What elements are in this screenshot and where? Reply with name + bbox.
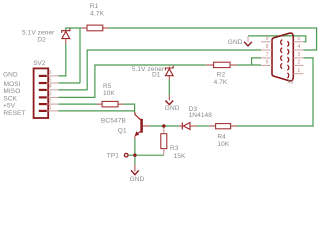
- svg-text:R4: R4: [217, 134, 226, 141]
- svg-text:3: 3: [49, 92, 52, 98]
- wire Q1 emitter down to GND symbol: [134, 139, 136, 165]
- zener diode D1: [168, 65, 170, 68]
- wire X1 pin 3 down right side to R4 right pin: [237, 58, 313, 126]
- ground symbol below D1: [168, 95, 170, 100]
- wire SV2 MISO row to X1 pin 8: [58, 50, 261, 90]
- svg-text:Q1: Q1: [118, 127, 127, 134]
- wire net MOSI: D2 cathode corner to R1 left pin: [66, 28, 82, 31]
- resistor R3: [161, 134, 167, 149]
- diode D3 1N4148: [179, 125, 183, 127]
- junction R3 top on base net: [162, 124, 165, 127]
- resistor R1: [87, 25, 103, 31]
- X1 pin numbers 9,8,7,6: [266, 36, 269, 66]
- svg-text:5: 5: [49, 77, 52, 83]
- wire R5 right pin down to Q1 collector: [123, 104, 134, 112]
- svg-text:8: 8: [266, 44, 269, 50]
- svg-text:4.7K: 4.7K: [214, 79, 228, 86]
- svg-text:1: 1: [49, 105, 52, 111]
- svg-text:D2: D2: [37, 36, 46, 43]
- resistor R2: [214, 62, 230, 67]
- wire R2 right pin to X1 pin 6: [237, 64, 261, 66]
- resistor R4: [216, 124, 231, 129]
- svg-text:+5V: +5V: [3, 103, 16, 110]
- D2 anode pin: [65, 39, 67, 44]
- svg-text:4: 4: [49, 84, 52, 90]
- svg-text:SV2: SV2: [33, 60, 46, 67]
- SV2 pin numbers 6..1: [49, 70, 52, 111]
- svg-text:R1: R1: [90, 3, 99, 10]
- junction TP1 wire / emitter net: [133, 154, 136, 157]
- svg-text:GND: GND: [3, 71, 18, 78]
- wire SV2 GND row up to D2 anode: [58, 44, 66, 76]
- svg-text:D1: D1: [152, 72, 161, 79]
- connector SV2 body: [34, 68, 49, 118]
- svg-text:4.7K: 4.7K: [90, 10, 104, 17]
- connector X1 body (DB9): [272, 33, 293, 81]
- svg-text:MISO: MISO: [3, 88, 20, 95]
- wire SV2 MOSI row: [58, 82, 80, 84]
- svg-text:5: 5: [297, 36, 300, 42]
- svg-text:15K: 15K: [174, 153, 186, 160]
- X1 right pin stubs 5,4,3,2,1: [293, 42, 303, 74]
- test point TP1: [124, 153, 128, 157]
- svg-text:MOSI: MOSI: [4, 81, 21, 88]
- svg-text:GND: GND: [165, 105, 180, 112]
- wire D1 anode down to GND symbol: [168, 80, 170, 96]
- wire drop from MOSI top wire down to SV2 pin 5 row: [79, 28, 81, 83]
- wire Q1 base to D3 cathode: [149, 125, 178, 127]
- svg-text:6: 6: [49, 70, 52, 76]
- svg-text:9: 9: [266, 36, 269, 42]
- svg-text:10K: 10K: [217, 141, 229, 148]
- svg-text:7: 7: [266, 52, 269, 58]
- X1 contact arcs left column: [281, 40, 283, 69]
- transistor Q1 BC547B: [140, 119, 143, 133]
- svg-text:2: 2: [49, 98, 52, 104]
- wire R1 right pin to X1 pin 4: [109, 28, 317, 50]
- wire jog up to X1 pin 7: [252, 58, 261, 65]
- resistor R5: [102, 101, 118, 107]
- svg-text:TP1: TP1: [107, 152, 120, 159]
- svg-text:1N4148: 1N4148: [189, 112, 213, 119]
- zener diode D2: [62, 29, 70, 39]
- wire SV2 SCK row up to R2/D1 net: [58, 65, 206, 97]
- svg-text:BC547B: BC547B: [101, 117, 127, 124]
- svg-text:6: 6: [266, 60, 269, 66]
- SV2 pin stubs 6..1: [48, 76, 58, 111]
- X1 pin numbers 5,4,3,2,1: [297, 36, 300, 74]
- SV2 pin contact bars: [39, 76, 47, 111]
- X1 left pin stubs 9,8,7,6: [261, 42, 272, 66]
- svg-text:X1: X1: [287, 80, 293, 86]
- svg-text:10K: 10K: [103, 90, 115, 97]
- X1 contact arcs right column: [287, 41, 289, 78]
- wire SV2 RESET row to collector node: [58, 110, 134, 112]
- wire SV2 +5V row to R5 left pin: [58, 103, 97, 105]
- wire GND symbol to X1 pin 5: [248, 36, 306, 42]
- svg-text:R3: R3: [170, 145, 179, 152]
- wire TP1 to R3 bottom pin: [128, 154, 164, 156]
- svg-text:4: 4: [297, 44, 300, 50]
- svg-text:SCK: SCK: [3, 95, 17, 102]
- ground symbol at Q1 emitter: [134, 165, 136, 172]
- wire D3 anode to R4 left pin: [197, 125, 209, 127]
- svg-text:2: 2: [297, 60, 300, 66]
- svg-text:R5: R5: [103, 83, 112, 90]
- svg-text:3: 3: [297, 52, 300, 58]
- svg-text:GND: GND: [130, 176, 145, 183]
- svg-text:R2: R2: [217, 72, 226, 79]
- svg-text:GND: GND: [228, 39, 243, 46]
- svg-text:RESET: RESET: [3, 110, 25, 117]
- ground symbol near X1: [247, 36, 249, 42]
- svg-text:1: 1: [297, 68, 300, 74]
